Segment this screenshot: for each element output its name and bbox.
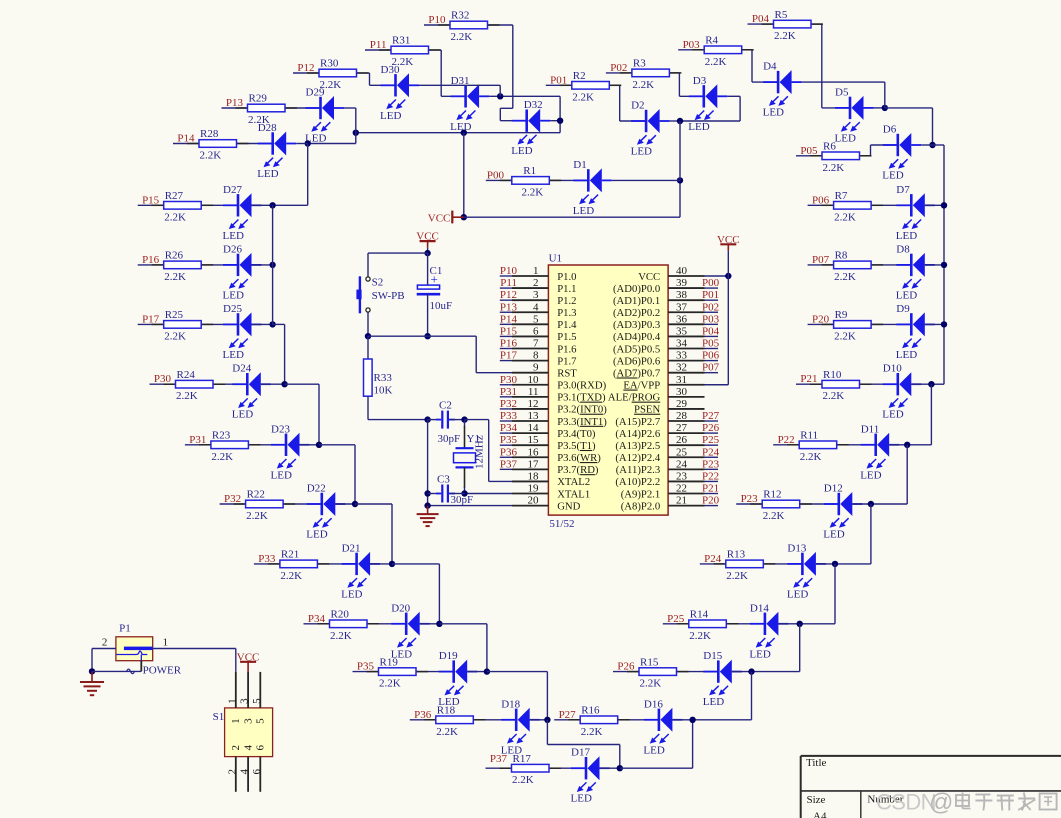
svg-text:P36: P36 [414, 709, 432, 721]
svg-text:P3.2(INT0): P3.2(INT0) [557, 404, 607, 416]
svg-text:37: 37 [676, 301, 688, 313]
svg-text:2.2K: 2.2K [834, 211, 856, 223]
svg-text:2: 2 [102, 637, 108, 649]
svg-text:P30: P30 [154, 373, 172, 385]
svg-text:P02: P02 [610, 62, 627, 74]
svg-text:D24: D24 [232, 363, 251, 375]
svg-text:P11: P11 [370, 39, 387, 51]
svg-text:P3.0(RXD): P3.0(RXD) [557, 380, 606, 392]
svg-text:2.2K: 2.2K [823, 390, 845, 402]
svg-text:VCC: VCC [638, 271, 660, 283]
svg-text:P12: P12 [500, 289, 517, 301]
svg-text:(A13)P2.5: (A13)P2.5 [615, 440, 660, 452]
svg-text:LED: LED [787, 588, 808, 600]
svg-text:P1.3: P1.3 [557, 307, 576, 319]
svg-text:P12: P12 [297, 62, 314, 74]
svg-text:P03: P03 [683, 39, 701, 51]
svg-text:D27: D27 [223, 184, 242, 196]
svg-text:P16: P16 [500, 338, 518, 350]
svg-text:6: 6 [251, 769, 263, 775]
svg-text:27: 27 [676, 422, 688, 434]
svg-text:2.2K: 2.2K [280, 570, 302, 582]
svg-text:R23: R23 [212, 430, 231, 442]
svg-text:2: 2 [230, 745, 242, 751]
svg-text:LED: LED [223, 289, 244, 301]
svg-text:LED: LED [835, 132, 856, 144]
svg-text:P00: P00 [702, 277, 720, 289]
svg-text:R21: R21 [281, 549, 299, 561]
svg-text:(AD1)P0.1: (AD1)P0.1 [613, 295, 660, 307]
svg-text:(A8)P2.0: (A8)P2.0 [621, 500, 660, 512]
svg-text:12MHz: 12MHz [474, 435, 486, 469]
svg-text:P05: P05 [702, 338, 720, 350]
svg-text:C2: C2 [439, 400, 452, 412]
svg-text:22: 22 [676, 483, 687, 495]
svg-text:35: 35 [676, 325, 688, 337]
svg-text:15: 15 [528, 434, 540, 446]
svg-text:R30: R30 [320, 58, 339, 70]
svg-text:17: 17 [528, 458, 540, 470]
svg-text:P1.5: P1.5 [557, 331, 576, 343]
svg-text:23: 23 [676, 470, 688, 482]
svg-text:2.2K: 2.2K [572, 91, 594, 103]
svg-text:LED: LED [763, 107, 784, 119]
svg-text:XTAL1: XTAL1 [557, 488, 590, 500]
svg-text:9: 9 [533, 362, 539, 374]
svg-text:P30: P30 [500, 374, 518, 386]
svg-text:(AD5)P0.5: (AD5)P0.5 [613, 343, 660, 355]
svg-text:(AD2)P0.2: (AD2)P0.2 [613, 307, 660, 319]
svg-text:2.2K: 2.2K [581, 726, 603, 738]
svg-text:(AD6)P0.6: (AD6)P0.6 [613, 355, 661, 367]
svg-text:@: @ [929, 789, 953, 816]
svg-text:C3: C3 [437, 474, 450, 486]
svg-text:R29: R29 [249, 93, 268, 105]
svg-text:LED: LED [823, 529, 844, 541]
svg-text:A4: A4 [813, 811, 827, 818]
svg-text:P24: P24 [702, 446, 720, 458]
svg-text:14: 14 [528, 422, 540, 434]
svg-text:S2: S2 [372, 277, 384, 289]
svg-text:LED: LED [511, 145, 532, 157]
svg-text:SW-PB: SW-PB [372, 290, 405, 302]
svg-text:LED: LED [271, 469, 292, 481]
svg-text:P35: P35 [500, 434, 518, 446]
svg-text:P03: P03 [702, 313, 720, 325]
svg-text:P26: P26 [702, 422, 720, 434]
svg-text:D10: D10 [883, 363, 902, 375]
svg-text:R6: R6 [823, 141, 836, 153]
svg-text:P20: P20 [702, 495, 720, 507]
svg-text:19: 19 [528, 483, 540, 495]
svg-text:D20: D20 [391, 602, 410, 614]
svg-text:P1.1: P1.1 [557, 283, 576, 295]
svg-text:(AD7)P0.7: (AD7)P0.7 [613, 367, 661, 379]
svg-text:LED: LED [571, 793, 592, 805]
svg-text:2.2K: 2.2K [834, 271, 856, 283]
svg-text:R8: R8 [835, 250, 848, 262]
svg-text:2.2K: 2.2K [632, 79, 654, 91]
svg-text:29: 29 [676, 398, 688, 410]
svg-text:P04: P04 [752, 13, 770, 25]
svg-text:30: 30 [676, 386, 688, 398]
svg-text:39: 39 [676, 277, 688, 289]
svg-text:D9: D9 [896, 303, 910, 315]
svg-text:2.2K: 2.2K [246, 510, 268, 522]
svg-text:P32: P32 [224, 493, 241, 505]
svg-text:D8: D8 [896, 243, 910, 255]
svg-text:(A10)P2.2: (A10)P2.2 [615, 476, 660, 488]
svg-text:P10: P10 [500, 265, 518, 277]
svg-text:+: + [431, 271, 438, 286]
svg-text:2: 2 [533, 277, 539, 289]
svg-text:(A14)P2.6: (A14)P2.6 [615, 428, 660, 440]
svg-text:LED: LED [450, 121, 471, 133]
svg-text:D6: D6 [883, 124, 897, 136]
svg-text:LED: LED [232, 409, 253, 421]
svg-text:P14: P14 [500, 313, 518, 325]
svg-text:LED: LED [257, 168, 278, 180]
svg-text:P3.5(T1): P3.5(T1) [557, 440, 596, 452]
svg-text:51/52: 51/52 [549, 518, 574, 530]
svg-text:CSDN: CSDN [876, 790, 936, 815]
svg-text:6: 6 [533, 325, 539, 337]
svg-text:P31: P31 [189, 434, 206, 446]
svg-text:R4: R4 [705, 35, 718, 47]
svg-text:10K: 10K [374, 385, 393, 397]
svg-text:P00: P00 [487, 169, 505, 181]
svg-text:P32: P32 [500, 398, 517, 410]
svg-text:8: 8 [533, 350, 539, 362]
svg-text:VCC: VCC [717, 234, 740, 246]
svg-text:P21: P21 [800, 373, 817, 385]
svg-text:D17: D17 [571, 747, 590, 759]
svg-text:10: 10 [528, 374, 540, 386]
svg-text:D5: D5 [835, 86, 849, 98]
svg-text:21: 21 [676, 495, 687, 507]
svg-text:D25: D25 [223, 303, 242, 315]
svg-text:D14: D14 [750, 602, 769, 614]
svg-text:2: 2 [226, 769, 238, 775]
svg-text:32: 32 [676, 362, 687, 374]
svg-text:5: 5 [251, 698, 263, 704]
svg-text:D2: D2 [631, 100, 644, 112]
svg-text:ALE/PROG: ALE/PROG [608, 392, 661, 404]
svg-text:R15: R15 [640, 656, 659, 668]
svg-text:(A9)P2.1: (A9)P2.1 [621, 488, 660, 500]
svg-text:P15: P15 [500, 325, 518, 337]
svg-text:LED: LED [631, 146, 652, 158]
svg-text:PSEN: PSEN [634, 404, 660, 416]
svg-text:P07: P07 [812, 254, 830, 266]
svg-text:EA/VPP: EA/VPP [623, 380, 660, 392]
svg-text:P3.6(WR): P3.6(WR) [557, 452, 601, 464]
svg-text:P25: P25 [667, 613, 685, 625]
svg-text:P07: P07 [702, 362, 720, 374]
svg-text:XTAL2: XTAL2 [557, 476, 590, 488]
svg-text:2.2K: 2.2K [164, 330, 186, 342]
svg-text:P25: P25 [702, 434, 720, 446]
svg-text:D19: D19 [439, 650, 458, 662]
svg-text:P04: P04 [702, 325, 720, 337]
svg-text:S1: S1 [213, 711, 225, 723]
svg-text:2.2K: 2.2K [522, 186, 544, 198]
svg-text:P33: P33 [258, 553, 276, 565]
svg-text:D22: D22 [307, 483, 326, 495]
svg-text:P13: P13 [226, 97, 244, 109]
svg-text:R19: R19 [380, 656, 399, 668]
svg-text:D15: D15 [703, 650, 722, 662]
svg-text:RST: RST [557, 367, 577, 379]
svg-text:R13: R13 [727, 549, 746, 561]
svg-text:P1.7: P1.7 [557, 355, 577, 367]
svg-text:POWER: POWER [143, 665, 182, 677]
svg-text:24: 24 [676, 458, 688, 470]
svg-text:P31: P31 [500, 386, 517, 398]
svg-text:2.2K: 2.2K [176, 390, 198, 402]
svg-text:D18: D18 [501, 698, 520, 710]
svg-text:LED: LED [688, 121, 709, 133]
svg-text:P20: P20 [812, 313, 830, 325]
svg-text:D4: D4 [763, 61, 777, 73]
svg-text:6: 6 [255, 745, 267, 751]
svg-text:2.2K: 2.2K [164, 271, 186, 283]
svg-text:P3.3(INT1): P3.3(INT1) [557, 416, 607, 428]
svg-text:16: 16 [528, 446, 540, 458]
svg-text:LED: LED [643, 744, 664, 756]
svg-text:R10: R10 [823, 369, 842, 381]
svg-text:P14: P14 [177, 133, 195, 145]
svg-text:P33: P33 [500, 410, 518, 422]
svg-text:2.2K: 2.2K [640, 678, 662, 690]
svg-text:D1: D1 [573, 159, 586, 171]
svg-text:P11: P11 [500, 277, 517, 289]
svg-text:7: 7 [533, 338, 539, 350]
svg-text:11: 11 [528, 386, 539, 398]
svg-text:3: 3 [239, 698, 251, 704]
svg-text:4: 4 [242, 745, 254, 751]
svg-text:R11: R11 [800, 430, 818, 442]
svg-text:VCC: VCC [237, 651, 260, 663]
svg-text:2.2K: 2.2K [763, 510, 785, 522]
svg-text:P16: P16 [142, 254, 160, 266]
svg-text:LED: LED [749, 648, 770, 660]
svg-text:D28: D28 [258, 122, 277, 134]
svg-text:1: 1 [226, 698, 238, 704]
svg-text:5: 5 [255, 718, 267, 724]
svg-text:2.2K: 2.2K [726, 570, 748, 582]
svg-text:P1.4: P1.4 [557, 319, 577, 331]
svg-text:R12: R12 [763, 489, 781, 501]
svg-text:28: 28 [676, 410, 688, 422]
svg-text:2.2K: 2.2K [705, 56, 727, 68]
svg-text:P37: P37 [490, 753, 508, 765]
svg-text:D23: D23 [271, 423, 290, 435]
svg-text:25: 25 [676, 446, 688, 458]
svg-text:P1: P1 [119, 622, 131, 634]
svg-text:P05: P05 [800, 145, 818, 157]
svg-text:VCC: VCC [416, 231, 439, 243]
svg-text:R22: R22 [247, 489, 265, 501]
svg-text:R20: R20 [331, 609, 350, 621]
svg-text:LED: LED [882, 170, 903, 182]
svg-text:D11: D11 [861, 423, 880, 435]
svg-text:R1: R1 [523, 165, 536, 177]
svg-text:4: 4 [239, 769, 251, 775]
svg-text:P23: P23 [741, 493, 759, 505]
svg-text:1: 1 [163, 637, 169, 649]
svg-text:1: 1 [230, 718, 242, 724]
svg-text:2.2K: 2.2K [834, 330, 856, 342]
svg-text:33: 33 [676, 350, 688, 362]
svg-text:P3.7(RD): P3.7(RD) [557, 464, 599, 476]
svg-text:2.2K: 2.2K [451, 31, 473, 43]
svg-text:P3.4(T0): P3.4(T0) [557, 428, 596, 440]
svg-text:LED: LED [882, 409, 903, 421]
svg-text:P23: P23 [702, 458, 720, 470]
svg-text:P1.0: P1.0 [557, 271, 576, 283]
svg-text:2.2K: 2.2K [330, 630, 352, 642]
svg-text:P27: P27 [702, 410, 720, 422]
svg-text:R14: R14 [690, 609, 709, 621]
svg-text:10uF: 10uF [430, 300, 453, 312]
svg-text:P34: P34 [308, 613, 326, 625]
svg-text:D32: D32 [524, 99, 543, 111]
svg-text:2.2K: 2.2K [512, 774, 534, 786]
svg-text:R28: R28 [200, 128, 219, 140]
svg-text:D26: D26 [223, 243, 242, 255]
svg-text:P27: P27 [559, 709, 577, 721]
svg-text:P26: P26 [617, 661, 635, 673]
svg-text:P01: P01 [702, 289, 719, 301]
svg-text:2.2K: 2.2K [689, 630, 711, 642]
svg-text:P06: P06 [812, 194, 830, 206]
svg-text:2.2K: 2.2K [379, 678, 401, 690]
svg-text:2.2K: 2.2K [823, 162, 845, 174]
svg-text:P15: P15 [142, 194, 160, 206]
svg-text:LED: LED [223, 349, 244, 361]
svg-text:D16: D16 [644, 698, 663, 710]
svg-text:13: 13 [528, 410, 540, 422]
svg-text:GND: GND [557, 500, 580, 512]
svg-text:R5: R5 [775, 9, 788, 21]
svg-text:P22: P22 [702, 470, 719, 482]
svg-text:LED: LED [896, 230, 917, 242]
svg-text:R32: R32 [451, 10, 469, 22]
svg-text:P35: P35 [357, 661, 375, 673]
svg-text:R24: R24 [177, 369, 196, 381]
svg-text:LED: LED [380, 110, 401, 122]
svg-text:D21: D21 [342, 542, 361, 554]
svg-text:40: 40 [676, 265, 688, 277]
svg-text:2.2K: 2.2K [211, 451, 233, 463]
svg-text:D29: D29 [306, 87, 325, 99]
svg-text:P10: P10 [428, 14, 446, 26]
svg-text:P06: P06 [702, 350, 720, 362]
svg-text:P34: P34 [500, 422, 518, 434]
svg-text:P22: P22 [778, 434, 795, 446]
svg-text:D13: D13 [787, 542, 806, 554]
svg-text:LED: LED [223, 230, 244, 242]
svg-text:D7: D7 [896, 184, 910, 196]
svg-text:P01: P01 [550, 74, 567, 86]
svg-text:LED: LED [341, 588, 362, 600]
svg-text:18: 18 [528, 470, 540, 482]
svg-text:36: 36 [676, 313, 688, 325]
svg-text:U1: U1 [549, 253, 562, 265]
svg-text:4: 4 [533, 301, 539, 313]
svg-text:P1.2: P1.2 [557, 295, 576, 307]
svg-text:P24: P24 [704, 553, 722, 565]
svg-text:R17: R17 [513, 753, 532, 765]
svg-text:P1.6: P1.6 [557, 343, 577, 355]
svg-text:34: 34 [676, 338, 688, 350]
svg-text:D30: D30 [381, 64, 400, 76]
svg-text:P37: P37 [500, 458, 518, 470]
svg-text:1: 1 [533, 265, 539, 277]
svg-text:(A11)P2.3: (A11)P2.3 [616, 464, 660, 476]
svg-text:2.2K: 2.2K [164, 211, 186, 223]
svg-text:R33: R33 [374, 372, 393, 384]
svg-text:R7: R7 [835, 190, 848, 202]
svg-text:LED: LED [860, 469, 881, 481]
svg-text:26: 26 [676, 434, 688, 446]
svg-text:2.2K: 2.2K [800, 451, 822, 463]
svg-text:Size: Size [807, 794, 826, 806]
svg-text:LED: LED [573, 205, 594, 217]
svg-text:30pF: 30pF [451, 494, 474, 506]
svg-text:R2: R2 [573, 70, 586, 82]
svg-text:2.2K: 2.2K [774, 30, 796, 42]
svg-text:31: 31 [676, 374, 687, 386]
svg-text:3: 3 [533, 289, 539, 301]
svg-text:P17: P17 [142, 313, 160, 325]
svg-text:R16: R16 [581, 705, 600, 717]
svg-text:(A15)P2.7: (A15)P2.7 [615, 416, 660, 428]
svg-text:R31: R31 [392, 35, 410, 47]
svg-text:20: 20 [528, 495, 540, 507]
svg-text:2.2K: 2.2K [436, 726, 458, 738]
svg-text:38: 38 [676, 289, 688, 301]
svg-text:LED: LED [896, 289, 917, 301]
svg-text:(AD0)P0.0: (AD0)P0.0 [613, 283, 660, 295]
svg-text:D3: D3 [693, 75, 707, 87]
svg-text:(A12)P2.4: (A12)P2.4 [615, 452, 660, 464]
svg-text:5: 5 [533, 313, 539, 325]
svg-text:P17: P17 [500, 350, 518, 362]
svg-text:LED: LED [896, 349, 917, 361]
svg-text:12: 12 [528, 398, 539, 410]
svg-text:R18: R18 [437, 705, 456, 717]
svg-text:Title: Title [806, 757, 827, 769]
svg-text:(AD3)P0.3: (AD3)P0.3 [613, 319, 660, 331]
svg-text:VCC: VCC [428, 212, 451, 224]
svg-text:P21: P21 [702, 483, 719, 495]
svg-text:P02: P02 [702, 301, 719, 313]
svg-text:P13: P13 [500, 301, 518, 313]
svg-text:P3.1(TXD): P3.1(TXD) [557, 392, 606, 404]
svg-text:P36: P36 [500, 446, 518, 458]
svg-text:LED: LED [703, 696, 724, 708]
svg-text:R27: R27 [165, 190, 184, 202]
svg-text:2.2K: 2.2K [200, 150, 222, 162]
svg-text:R26: R26 [165, 250, 184, 262]
svg-text:3: 3 [242, 718, 254, 724]
svg-text:LED: LED [306, 529, 327, 541]
svg-text:R3: R3 [633, 58, 646, 70]
svg-text:(AD4)P0.4: (AD4)P0.4 [613, 331, 661, 343]
svg-text:R25: R25 [165, 309, 184, 321]
